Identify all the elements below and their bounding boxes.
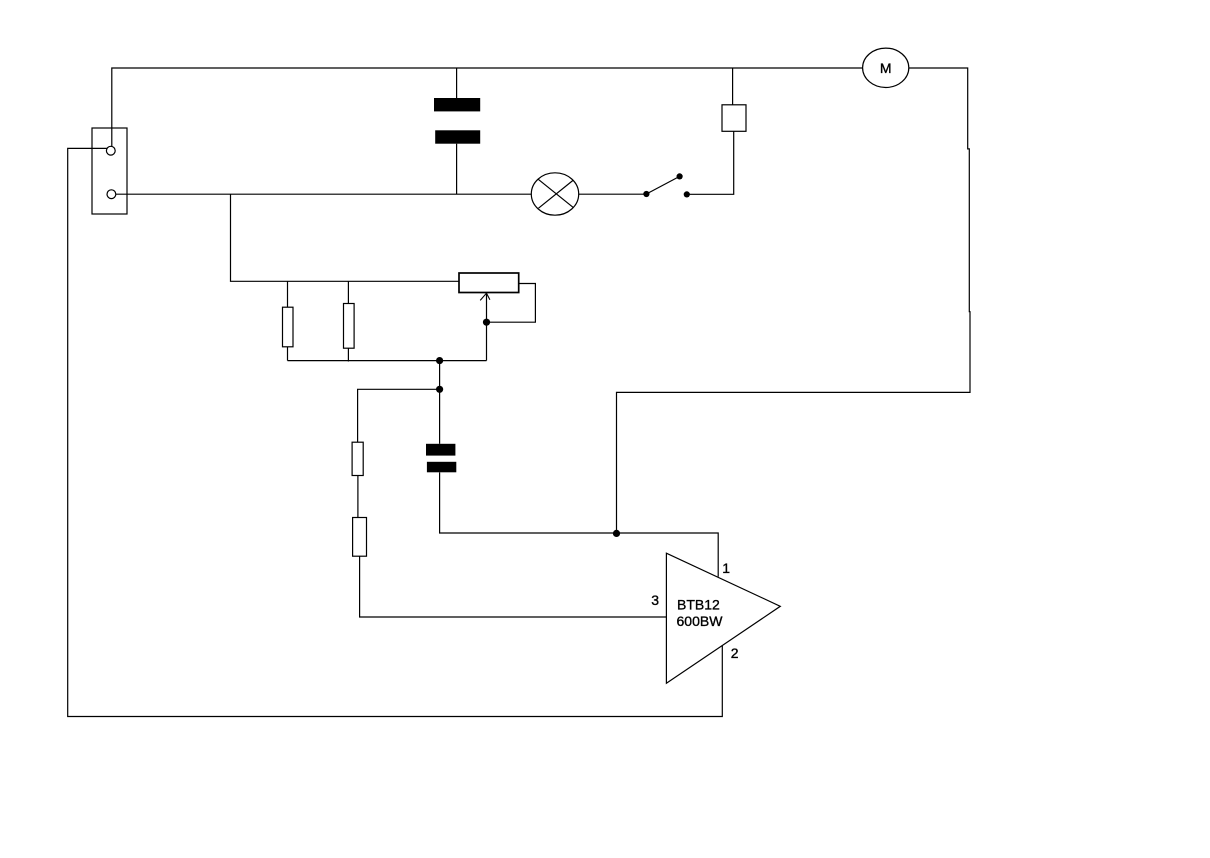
wire R1 bottom lead bbox=[287, 347, 289, 361]
capacitor C2 plate bottom bbox=[427, 462, 456, 473]
capacitor C1 plate bottom bbox=[435, 130, 480, 143]
potentiometer P1 body bbox=[459, 273, 519, 293]
wire R3 to R4 link bbox=[357, 476, 359, 518]
svg-text:1: 1 bbox=[722, 560, 730, 576]
lamp L1 bbox=[531, 173, 578, 215]
wire branch down to divider rail bbox=[231, 194, 460, 281]
wire motor to right rail down and across to node A bbox=[617, 68, 971, 531]
fuse F1 bbox=[722, 105, 746, 132]
wire node to C2 top bbox=[439, 361, 441, 444]
potentiometer P1 wiper arrow bbox=[480, 293, 490, 300]
svg-text:M: M bbox=[880, 60, 892, 76]
svg-text:BTB12: BTB12 bbox=[677, 596, 720, 612]
wire R2 top lead bbox=[347, 281, 349, 303]
resistor R1 bbox=[283, 307, 294, 347]
wire node to R3 branch bbox=[358, 389, 440, 442]
junction RC node bbox=[436, 386, 443, 393]
junction wiper node bbox=[483, 319, 490, 326]
wire C2 bottom across node A to triac pin 1 bbox=[440, 472, 719, 576]
switch S1 bbox=[643, 173, 690, 197]
wire C1 top lead bbox=[456, 68, 458, 98]
wire R2 bottom lead bbox=[347, 348, 349, 361]
wire main horizontal from plug to lamp bbox=[116, 193, 532, 195]
wire left rail and bottom rail up to triac pin 2 bbox=[68, 148, 723, 716]
wire C1 bottom lead bbox=[456, 144, 458, 195]
connector J1 body bbox=[92, 128, 127, 214]
wire top rail from plug to motor bbox=[112, 68, 863, 146]
svg-text:2: 2 bbox=[731, 645, 739, 661]
wire divider bottom horizontal bbox=[288, 360, 487, 362]
capacitor C1 plate top bbox=[434, 98, 480, 111]
wire R4 bottom to triac gate bbox=[360, 556, 667, 617]
wire pot right end loop to wiper bbox=[487, 284, 536, 323]
resistor R2 bbox=[344, 304, 355, 349]
svg-text:600BW: 600BW bbox=[677, 613, 724, 629]
triac U1 BTB12 600BW bbox=[666, 553, 780, 683]
svg-text:3: 3 bbox=[651, 592, 659, 608]
wire lamp to switch bbox=[579, 193, 645, 195]
resistor R4 bbox=[353, 518, 367, 557]
resistor R3 bbox=[352, 442, 363, 475]
junction node A bbox=[613, 530, 620, 537]
motor M1 bbox=[863, 48, 909, 87]
junction divider node bbox=[436, 357, 443, 364]
connector J1 terminal bottom bbox=[107, 190, 116, 199]
wire switch to fuse bbox=[690, 131, 734, 194]
wire wiper down to divider rail bbox=[486, 294, 488, 361]
capacitor C2 plate top bbox=[426, 444, 455, 456]
wire R1 top lead bbox=[287, 281, 289, 307]
wire fuse to top rail bbox=[732, 68, 734, 105]
connector J1 terminal top bbox=[106, 146, 115, 155]
